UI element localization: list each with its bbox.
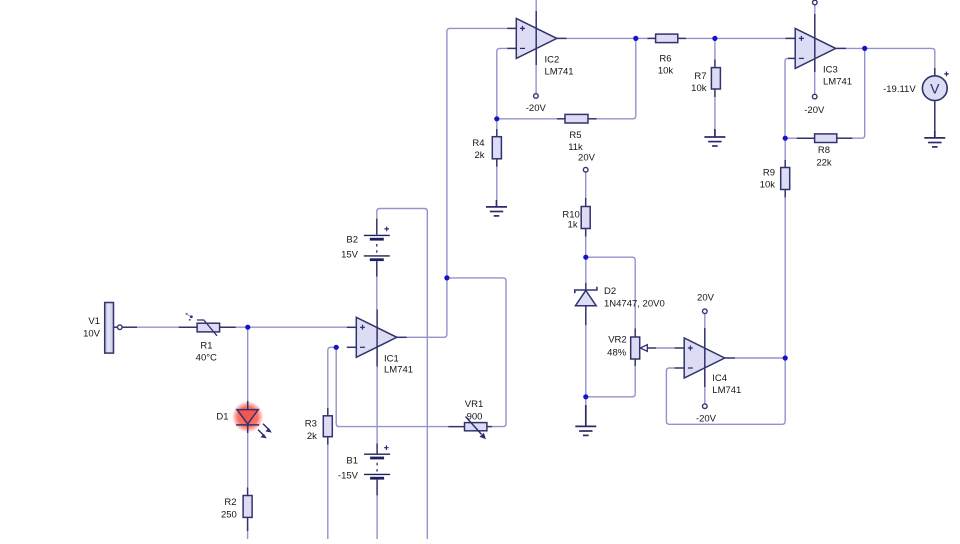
node D junction (633, 36, 638, 41)
svg-text:IC1: IC1 (384, 353, 399, 364)
wire R1 to IC1 + input (node A) (236, 326, 347, 328)
terminal -20V of IC2 (526, 94, 547, 114)
svg-text:900: 900 (467, 411, 483, 422)
wire VR1 right up to node B (447, 278, 506, 427)
wire node D to R6 (636, 37, 648, 39)
wire V1 to R1 (122, 326, 179, 328)
ground of D2 node (575, 405, 596, 435)
wire node C to R4 (496, 119, 498, 129)
wire IC1 - node down to VR1 left (336, 347, 448, 426)
svg-text:D1: D1 (216, 412, 228, 423)
svg-text:LM741: LM741 (384, 364, 413, 375)
svg-text:22k: 22k (816, 157, 832, 168)
wire R10 to node I (585, 237, 587, 258)
op-amp IC1 LM741 (347, 309, 413, 375)
wire node A down to D1 (247, 327, 249, 401)
wire node F to R9 (784, 138, 786, 160)
svg-text:10V: 10V (83, 329, 101, 340)
svg-text:10k: 10k (658, 65, 674, 76)
node I junction (583, 255, 588, 260)
wire R6 to node E (686, 37, 715, 39)
op-amp IC3 LM741 (786, 14, 853, 87)
wire IC2 V+ pin to top edge (535, 0, 537, 11)
svg-text:R8: R8 (818, 145, 830, 156)
resistor R10 1k (562, 198, 590, 237)
wire node J to ground (585, 397, 587, 405)
wire node B up to IC2 + input (447, 28, 507, 278)
resistor R4 2k (472, 129, 501, 167)
wire IC4 V+ pin to terminal (704, 313, 706, 328)
svg-text:2k: 2k (307, 431, 317, 442)
svg-text:V1: V1 (88, 316, 100, 327)
svg-text:R4: R4 (472, 138, 484, 149)
svg-text:20V: 20V (578, 152, 596, 163)
wire B2 bottom to IC1 V+ pin (376, 277, 378, 310)
svg-text:-20V: -20V (526, 103, 547, 114)
node B junction (444, 275, 449, 280)
svg-text:LM741: LM741 (545, 67, 574, 78)
svg-text:LM741: LM741 (712, 385, 741, 396)
svg-text:D2: D2 (604, 286, 616, 297)
resistor R5 11k (557, 114, 597, 152)
wire IC1 output up to node B (407, 278, 447, 337)
svg-text:1N4747, 20V0: 1N4747, 20V0 (604, 298, 665, 309)
svg-text:VR2: VR2 (608, 334, 626, 345)
wire IC4 feedback loop - input to node H (666, 358, 785, 424)
svg-text:2k: 2k (474, 150, 484, 161)
wire IC1 V- pin to B1 top (376, 367, 378, 444)
wire VR2 bottom to node J (586, 366, 635, 397)
wire R3 to bottom edge (327, 445, 329, 539)
terminal 20V of IC3 (top) (813, 0, 818, 5)
terminal 20V of IC4 (697, 292, 715, 313)
terminal of V1 (118, 325, 123, 330)
resistor R3 2k (305, 408, 333, 445)
node G junction (862, 46, 867, 51)
wire IC3 - input down to node F (785, 58, 788, 138)
ground of R4 (486, 200, 507, 216)
svg-text:-20V: -20V (804, 105, 825, 116)
svg-text:1k: 1k (568, 220, 578, 231)
svg-text:-19.11V: -19.11V (883, 84, 916, 95)
ground of voltmeter (924, 131, 945, 147)
wire IC4 V- pin to terminal (704, 387, 706, 404)
variable resistor VR1 900 (448, 399, 492, 439)
svg-text:R3: R3 (305, 418, 317, 429)
svg-text:V: V (930, 80, 940, 96)
svg-text:250: 250 (221, 509, 237, 520)
thermistor R1 40°C (179, 320, 236, 363)
resistor R7 10k (691, 60, 720, 98)
wire node C to R5 left (497, 118, 557, 120)
svg-text:R7: R7 (694, 71, 706, 82)
battery B2 15V (341, 219, 390, 277)
wire 20V terminal to R10 (585, 172, 587, 198)
wire node E down to R7 (714, 38, 716, 59)
zener diode D2 1N4747 (575, 283, 665, 325)
wire node G down to R8 right (852, 48, 864, 138)
terminal -20V of IC3 (804, 94, 825, 116)
svg-text:R1: R1 (200, 340, 212, 351)
svg-text:11k: 11k (568, 142, 583, 153)
svg-text:20V: 20V (697, 292, 715, 303)
wire B1 bottom to bottom edge (376, 495, 378, 539)
resistor R8 22k (797, 134, 853, 169)
wire IC3 V+ pin to terminal (814, 5, 816, 14)
node F junction (783, 136, 788, 141)
node IC1 minus junction (334, 345, 339, 350)
voltmeter -19.11V (883, 68, 949, 110)
wire IC2 V- pin to terminal (535, 65, 537, 94)
wire R4 to ground (496, 167, 498, 200)
svg-text:48%: 48% (607, 348, 627, 359)
op-amp IC2 LM741 (507, 11, 573, 78)
node C junction (494, 116, 499, 121)
svg-text:IC3: IC3 (823, 65, 838, 76)
voltage source V1 10V (83, 303, 137, 354)
svg-text:LM741: LM741 (823, 76, 852, 87)
svg-text:10k: 10k (691, 83, 707, 94)
svg-text:R5: R5 (569, 130, 581, 141)
resistor R6 10k (648, 34, 687, 76)
svg-text:40°C: 40°C (196, 352, 217, 363)
svg-text:15V: 15V (341, 249, 359, 260)
ground of R7 (704, 129, 725, 146)
wire node I to D2 (585, 257, 587, 283)
op-amp IC4 LM741 (675, 328, 742, 396)
svg-text:10k: 10k (760, 180, 776, 191)
wire R8 left to node F (785, 137, 797, 139)
svg-text:VR1: VR1 (465, 399, 483, 410)
wire node G to voltmeter (865, 48, 935, 68)
wire VR2 wiper to IC4 + input (656, 347, 675, 349)
svg-text:-15V: -15V (338, 470, 359, 481)
svg-text:B1: B1 (346, 456, 358, 467)
svg-text:IC2: IC2 (545, 55, 560, 66)
wire IC2 output to node D (567, 37, 636, 39)
svg-text:IC4: IC4 (712, 373, 727, 384)
wire IC2 - input down to node C (497, 48, 507, 118)
wire R5 right up to node D (597, 38, 636, 118)
wire voltmeter to ground (934, 110, 936, 131)
wire IC3 output to node G (846, 47, 865, 49)
node A junction (245, 325, 250, 330)
svg-text:R6: R6 (659, 54, 671, 65)
node H junction (IC4 output) (783, 355, 788, 360)
wire node E to IC3 + input (715, 37, 786, 39)
wire IC1 - node to R3 (328, 347, 339, 408)
svg-text:R10: R10 (562, 209, 579, 220)
wire D2 to node J (585, 325, 587, 397)
svg-text:R2: R2 (224, 497, 236, 508)
temperature adjust icon (185, 313, 192, 321)
wire R2 to bottom edge (247, 525, 249, 539)
svg-text:B2: B2 (346, 235, 358, 246)
wire R9 down to node H (IC4 output) (784, 198, 786, 359)
node J junction (583, 394, 588, 399)
svg-text:R9: R9 (763, 168, 775, 179)
svg-text:-20V: -20V (696, 414, 717, 425)
wire IC3 V- pin to terminal (814, 72, 816, 94)
wire IC4 output to node H (735, 357, 785, 359)
battery B1 -15V (338, 443, 390, 495)
node E junction (712, 36, 717, 41)
potentiometer VR2 48% (607, 328, 656, 366)
wire R7 to ground (714, 97, 716, 129)
wire B2 + bracket down right side to bottom edge (377, 209, 428, 540)
LED D1 (lit, red glow) (216, 401, 271, 439)
resistor R9 10k (760, 160, 790, 198)
resistor R2 250 (221, 488, 252, 532)
terminal -20V of IC4 (696, 404, 717, 425)
wire D1 to R2 (247, 433, 249, 488)
terminal 20V above R10 (578, 152, 596, 172)
wire node I right to VR2 top (586, 257, 635, 328)
